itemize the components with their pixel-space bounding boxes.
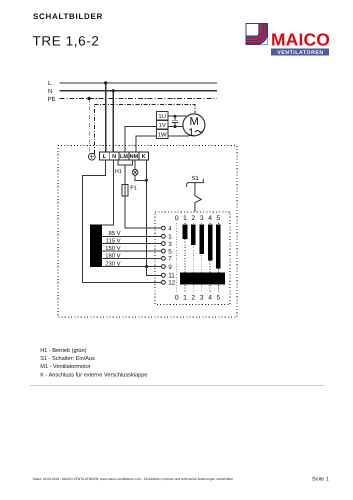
svg-text:VENTILATOREN: VENTILATOREN <box>277 50 323 56</box>
svg-text:9: 9 <box>168 264 172 271</box>
earth terminal symbol <box>88 153 95 160</box>
svg-text:3: 3 <box>200 295 204 302</box>
svg-text:M1 - Ventilatormotor: M1 - Ventilatormotor <box>40 363 90 370</box>
cam bar position 4 <box>208 225 213 261</box>
junction L <box>104 81 107 84</box>
svg-text:S1 - Schalter: Ein/Aus: S1 - Schalter: Ein/Aus <box>40 355 95 362</box>
svg-text:N: N <box>112 154 116 160</box>
cam bar position 1 <box>183 225 188 239</box>
svg-text:1W: 1W <box>158 131 167 138</box>
wire 1V to terminal LM <box>125 127 157 153</box>
svg-text:SCHALTBILDER: SCHALTBILDER <box>33 12 103 21</box>
svg-text:Stand: 26.03.2019 - MAICO VENT: Stand: 26.03.2019 - MAICO VENTILATOREN, … <box>33 477 234 481</box>
svg-text:3: 3 <box>200 215 204 222</box>
selector position digits top <box>175 215 221 222</box>
svg-text:7: 7 <box>168 256 172 263</box>
contact 9 <box>161 264 172 271</box>
svg-text:1: 1 <box>188 127 194 139</box>
wire 1U to motor <box>168 115 187 117</box>
svg-text:NM: NM <box>130 154 139 160</box>
cam bar position 5 <box>216 225 221 269</box>
MAICO logo VENTILATOREN banner <box>271 49 329 57</box>
svg-text:TRE 1,6-2: TRE 1,6-2 <box>33 33 100 48</box>
selector dotted column 2 <box>192 223 194 292</box>
junction K with 230V tap <box>145 265 148 268</box>
transformer tap 150V to contact 5 <box>102 250 161 252</box>
svg-text:85 V: 85 V <box>108 230 120 237</box>
wire L drop to terminal L <box>105 83 107 152</box>
svg-text:1: 1 <box>168 234 172 241</box>
cam bar common <box>180 272 225 284</box>
wire L supply line <box>60 82 218 84</box>
wire terminal L to contact 12 <box>83 160 162 282</box>
svg-text:0: 0 <box>175 215 179 222</box>
svg-text:K: K <box>142 154 146 160</box>
transformer tap 230V to contact 9 <box>102 266 161 268</box>
wire terminal K down <box>146 160 148 267</box>
wire 1W to terminal NM <box>136 136 157 152</box>
svg-text:11: 11 <box>168 273 175 280</box>
lamp H1 <box>132 170 138 176</box>
terminal 1V <box>157 121 168 130</box>
svg-text:PE: PE <box>48 96 56 103</box>
selector dotted column 4 <box>209 223 211 292</box>
transformer tap 115V to contact 3 <box>102 243 161 245</box>
contact 11 <box>161 273 175 280</box>
capacitor C <box>172 115 178 128</box>
wire terminal N to transformer <box>102 160 113 225</box>
svg-text:N: N <box>48 88 52 95</box>
svg-text:Seite 1: Seite 1 <box>312 477 329 483</box>
svg-text:4: 4 <box>208 295 212 302</box>
wire lamp H1 to node K <box>135 175 146 180</box>
svg-text:230 V: 230 V <box>105 260 120 267</box>
selector dotted column 0 <box>176 223 178 292</box>
transformer tap 85V to contact 1 <box>102 235 161 237</box>
contact 3 <box>161 241 172 248</box>
selector switch dashed box <box>155 212 230 305</box>
contact 12 <box>161 280 175 287</box>
svg-text:2: 2 <box>191 215 195 222</box>
wire LM via F1 to contact 4 <box>125 165 161 228</box>
wire K to contact 11 <box>147 267 162 276</box>
svg-text:4: 4 <box>208 215 212 222</box>
contact 1 <box>161 234 172 241</box>
svg-text:2: 2 <box>191 295 195 302</box>
svg-text:S1: S1 <box>191 175 199 182</box>
footer separator <box>30 385 325 387</box>
switch S1 <box>187 175 204 212</box>
svg-text:H1: H1 <box>115 169 122 175</box>
contact 4 <box>161 225 172 232</box>
junction PE <box>87 97 90 100</box>
selector dotted column 1 <box>184 223 186 292</box>
svg-text:3: 3 <box>168 241 172 248</box>
outer enclosure dotted box <box>58 146 237 317</box>
MAICO logo icon <box>246 24 268 45</box>
terminal 1W <box>157 129 168 138</box>
wire PE supply line <box>60 98 218 100</box>
svg-text:5: 5 <box>168 248 172 255</box>
wire bridge LM-NM <box>118 160 132 165</box>
svg-text:115 V: 115 V <box>106 238 121 245</box>
svg-text:H1 - Betrieb (grün): H1 - Betrieb (grün) <box>40 347 86 354</box>
motor M1 <box>183 114 205 139</box>
svg-text:1V: 1V <box>159 122 166 129</box>
fuse F1 <box>122 185 128 197</box>
wire NM to lamp H1 <box>134 160 136 170</box>
wire PE drop to earth terminal <box>88 99 90 154</box>
wire PE branch to motor frame <box>94 105 194 154</box>
selector position digits bottom <box>175 295 221 302</box>
transformer tap 180V to contact 7 <box>102 257 161 259</box>
terminal strip L N LM NM K <box>100 152 149 160</box>
svg-text:F1: F1 <box>130 185 137 191</box>
wire N supply line <box>60 90 218 92</box>
wire N drop to terminal N <box>112 91 114 152</box>
junction on K wire <box>145 179 148 182</box>
contact 7 <box>161 256 172 263</box>
svg-text:0: 0 <box>175 295 179 302</box>
svg-text:5: 5 <box>217 295 221 302</box>
contact 5 <box>161 248 172 255</box>
selector dotted column 5 <box>217 223 219 292</box>
transformer core <box>90 225 102 267</box>
selector dotted column 3 <box>201 223 203 292</box>
svg-text:150 V: 150 V <box>105 245 120 252</box>
svg-text:K - Anschluss für externe Vers: K - Anschluss für externe Verschlussklap… <box>40 371 147 378</box>
svg-text:4: 4 <box>168 225 172 232</box>
cam bar position 3 <box>199 225 204 254</box>
svg-text:1: 1 <box>183 295 187 302</box>
svg-text:180 V: 180 V <box>105 252 120 259</box>
svg-text:1U: 1U <box>158 113 166 120</box>
junction N <box>112 89 115 92</box>
terminal 1U <box>157 112 168 121</box>
cam bar position 2 <box>191 225 196 245</box>
wire 1V to motor <box>168 126 183 128</box>
svg-text:12: 12 <box>168 280 176 287</box>
svg-text:MAICO: MAICO <box>271 30 330 50</box>
svg-text:LM: LM <box>120 154 128 160</box>
svg-text:5: 5 <box>217 215 221 222</box>
svg-text:1: 1 <box>183 215 187 222</box>
wire 1W to motor <box>168 135 189 137</box>
